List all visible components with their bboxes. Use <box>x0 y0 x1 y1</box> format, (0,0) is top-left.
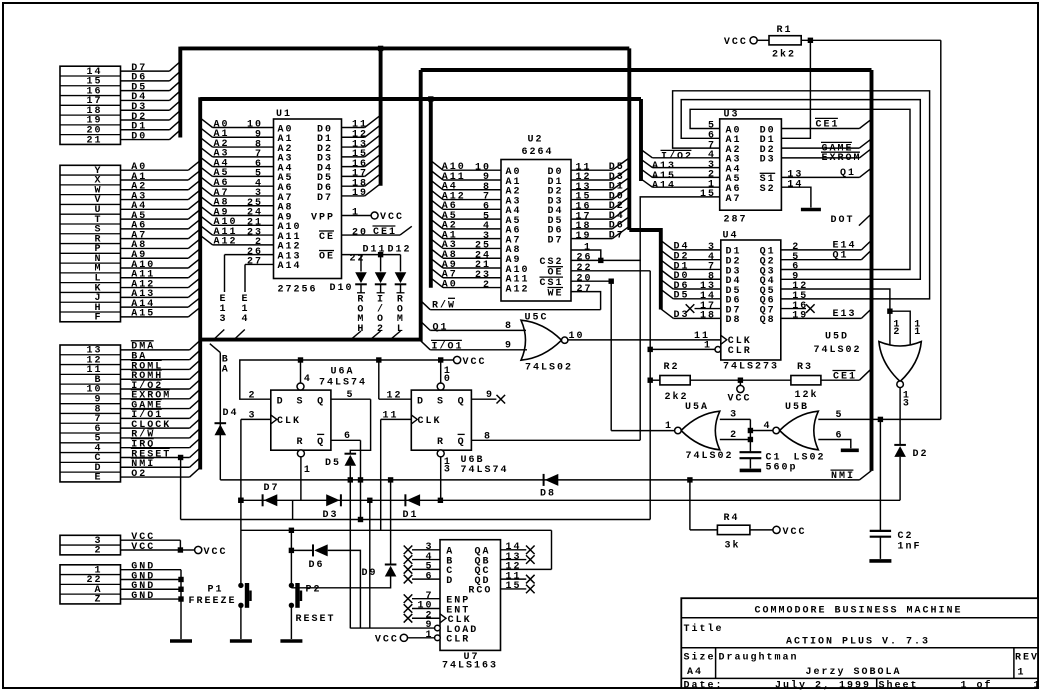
wire pin 2 VCC <box>121 549 181 551</box>
svg-text:U5A: U5A <box>685 402 709 413</box>
svg-text:A4: A4 <box>687 667 703 678</box>
svg-text:D3: D3 <box>760 155 776 166</box>
wire U2 pin 7 A12 <box>443 199 501 201</box>
svg-text:74LS163: 74LS163 <box>442 661 498 672</box>
svg-text:CE: CE <box>319 232 335 243</box>
bubble U5A output <box>675 427 682 434</box>
svg-text:D: D <box>277 396 285 407</box>
wire pin 21 D0 <box>121 139 170 141</box>
svg-text:D11: D11 <box>363 244 387 255</box>
node P2 top junction <box>289 528 294 533</box>
svg-text:19: 19 <box>352 188 368 199</box>
wire U1 pin 2 A12 <box>213 244 274 246</box>
wire U6B D to VCC <box>378 360 380 399</box>
no-connect X U6B pin 9 <box>497 395 506 404</box>
svg-text:12: 12 <box>386 390 402 401</box>
wire pin 17 D4 <box>121 99 170 101</box>
wire pin Z GND <box>121 598 182 600</box>
svg-text:F: F <box>94 313 102 324</box>
svg-text:4: 4 <box>763 421 771 432</box>
wire pin 22 GND <box>121 578 182 580</box>
svg-text:U2: U2 <box>528 135 544 146</box>
wire U1 pin 26 <box>225 254 274 256</box>
svg-text:July 2, 1999: July 2, 1999 <box>775 679 871 691</box>
node VCC junction R2R3 <box>738 378 743 383</box>
diode D7 <box>263 494 278 506</box>
wire U3 A15 <box>652 176 719 178</box>
wire U1 pin 3 A7 <box>213 195 274 197</box>
svg-text:74LS273: 74LS273 <box>723 362 779 373</box>
wire Q to D5 <box>350 399 370 453</box>
svg-text:D3: D3 <box>674 310 690 321</box>
svg-text:D: D <box>446 576 454 587</box>
svg-text:2: 2 <box>248 390 256 401</box>
svg-text:R3: R3 <box>797 362 813 373</box>
wire U1 pin 10 A0 <box>213 127 274 129</box>
wire CE1 net <box>342 234 401 236</box>
diode D8 <box>544 474 559 486</box>
wire R3 CE1 <box>821 379 860 381</box>
svg-text:D8: D8 <box>726 315 742 326</box>
svg-text:8: 8 <box>484 431 492 442</box>
wire U4 Q7 nc <box>781 308 806 310</box>
no-connect X U7 pin 3 <box>404 546 413 555</box>
svg-text:WE: WE <box>547 288 563 299</box>
svg-text:74LS02: 74LS02 <box>814 345 862 356</box>
wire pin Y A0 <box>121 169 189 171</box>
wire U1 pin 12 D1 <box>342 136 365 138</box>
wire BA bus entry <box>210 344 221 353</box>
wire U3 S2 to ground <box>781 187 811 207</box>
connector VCC pins box <box>60 535 121 555</box>
svg-text:3: 3 <box>903 398 911 409</box>
svg-text:A15: A15 <box>131 309 155 320</box>
ic U6A 74LS74 body <box>271 390 331 450</box>
wire U3 D0 CE1 <box>781 128 859 130</box>
wire pin 20 D1 <box>121 129 170 131</box>
no-connect X U7 pin 5 <box>404 565 413 574</box>
svg-text:CE1: CE1 <box>833 371 857 382</box>
wire pin C RESET <box>121 456 190 458</box>
wire E13 vertical <box>224 255 226 292</box>
wire diode D10 bottom <box>360 284 362 292</box>
wire pin D NMI <box>121 466 190 468</box>
bubble U6A R <box>297 450 304 457</box>
no-connect X U7 pin 6 <box>404 575 413 584</box>
connector GND pins box <box>60 565 121 604</box>
wire U1 pin 18 D6 <box>342 185 365 187</box>
resistor R1 <box>769 36 801 45</box>
svg-text:Q8: Q8 <box>760 315 776 326</box>
svg-text:NMI: NMI <box>831 471 855 482</box>
svg-text:D: D <box>417 396 425 407</box>
svg-text:18: 18 <box>700 311 716 322</box>
svg-text:1: 1 <box>304 465 312 476</box>
wire U2 pin 3 A1 <box>443 238 501 240</box>
wire VCC to R1 <box>757 39 769 41</box>
svg-text:ACTION PLUS V. 7.3: ACTION PLUS V. 7.3 <box>786 636 930 647</box>
ground U5B pin6 <box>841 448 859 452</box>
ic U4 74LS273 body <box>721 240 781 360</box>
wire address bus vertical left <box>198 97 202 469</box>
wire R2 to R3 <box>690 379 791 381</box>
node R1 junction <box>808 38 813 43</box>
title block size divider <box>715 648 717 679</box>
svg-text:S2: S2 <box>760 184 776 195</box>
wire U5C output pin 10 to U4 CLK <box>568 339 721 341</box>
wire D9 top <box>390 480 392 564</box>
wire NMI to R4 <box>689 480 691 530</box>
svg-text:A12: A12 <box>214 237 238 248</box>
wire U2 pin 16 D2 <box>571 208 612 210</box>
wire U2 pin 13 D1 <box>571 189 612 191</box>
svg-text:74LS02: 74LS02 <box>525 362 573 373</box>
wire pin 8 GAME <box>121 408 190 410</box>
ic U2 6264 body <box>501 160 571 302</box>
wire U7 QC out <box>501 568 552 570</box>
resistor R4 <box>717 525 750 534</box>
svg-text:2k2: 2k2 <box>772 48 796 60</box>
svg-text:3k: 3k <box>725 539 741 551</box>
svg-text:VCC: VCC <box>728 393 752 404</box>
svg-text:Q1: Q1 <box>433 322 449 333</box>
svg-text:Jerzy SOBOLA: Jerzy SOBOLA <box>806 667 902 678</box>
resistor R2 <box>660 376 690 385</box>
no-connect X U4 pin 17 <box>686 304 695 313</box>
svg-text:D2: D2 <box>913 449 929 460</box>
svg-text:R4: R4 <box>724 513 740 524</box>
no-connect X U7 <box>404 594 413 603</box>
ground U3 S2 <box>801 208 821 212</box>
svg-text:Z: Z <box>94 595 102 606</box>
node VCC rail junction <box>376 357 381 362</box>
wire U6A Q pin5 <box>331 398 371 400</box>
node NMI rail junction <box>687 477 692 482</box>
ic U6B 74LS74 body <box>411 390 471 450</box>
wire data bus branch to U4 <box>629 230 661 310</box>
wire U3 A13 <box>652 167 719 169</box>
wire U7 enable pin <box>412 617 440 619</box>
wire U3 pin 5 loop to U4 Q3 <box>690 109 910 269</box>
wire U1 pin 11 D0 <box>342 127 365 129</box>
wire pin6 down <box>360 440 362 519</box>
title block rev divider <box>1013 648 1015 679</box>
no-connect X U7 output <box>526 575 535 584</box>
svg-text:2: 2 <box>893 327 901 338</box>
svg-text:U3: U3 <box>724 110 740 121</box>
wire U5B output to U5A <box>750 430 773 432</box>
power VCC terminal R4 <box>773 526 780 533</box>
node rail3 junction <box>358 517 363 522</box>
wire U6A CLK <box>241 418 271 420</box>
ic U3 287 body <box>720 119 782 210</box>
op-amp U5C gate body <box>521 320 562 360</box>
wire D11 net bus entry <box>370 331 380 340</box>
wire D7 jog down <box>292 500 294 519</box>
wire U6B CLK down <box>380 419 382 530</box>
wire U2 pin 1 <box>571 250 601 260</box>
wire to C2 <box>879 419 881 530</box>
svg-text:6: 6 <box>425 571 433 582</box>
svg-text:S: S <box>437 396 445 407</box>
node U5A input junction <box>748 428 753 433</box>
wire to VCC symbol <box>180 549 194 551</box>
svg-text:P2: P2 <box>306 584 322 595</box>
wire U2 pin 25 A3 <box>443 247 501 249</box>
svg-text:A14: A14 <box>278 261 302 272</box>
wire diode D11 top <box>380 255 382 272</box>
node C1 junction <box>748 437 753 442</box>
svg-text:27: 27 <box>577 284 593 295</box>
wire R/W bus entry <box>421 301 431 310</box>
wire U2 pin 15 D0 <box>571 199 612 201</box>
wire U6A R pin1 down <box>300 456 302 500</box>
wire U6B Q pin9 nc <box>471 398 496 400</box>
wire R4 to VCC <box>750 529 773 531</box>
wire data bus top horizontal <box>180 46 629 50</box>
diode D4 <box>215 423 227 435</box>
wire BA down <box>219 353 221 480</box>
wire U3 D1 to R1 <box>781 40 810 138</box>
svg-text:D4: D4 <box>223 408 239 419</box>
diode D10 <box>355 272 367 284</box>
wire U1 pin 16 D4 <box>342 166 365 168</box>
svg-text:Draughtman: Draughtman <box>719 652 799 664</box>
svg-text:CLK: CLK <box>418 416 442 427</box>
wire data bus vertical right <box>627 48 631 230</box>
svg-text:A14: A14 <box>652 181 676 192</box>
wire pin 15 D6 <box>121 80 170 82</box>
node diode rail junction <box>367 498 372 503</box>
svg-text:A12: A12 <box>506 284 530 295</box>
svg-text:OE: OE <box>319 251 335 262</box>
svg-text:15: 15 <box>700 189 716 200</box>
svg-text:1: 1 <box>914 327 922 338</box>
wire pin A GND <box>121 588 182 590</box>
svg-text:6264: 6264 <box>522 147 554 158</box>
diode D12 <box>395 272 407 284</box>
svg-text:3: 3 <box>730 410 738 421</box>
wire down to QC <box>551 530 553 569</box>
svg-text:P1: P1 <box>208 584 224 595</box>
svg-text:Date:: Date: <box>684 680 724 691</box>
wire U5C pin 8 Q1 <box>430 329 526 331</box>
svg-text:D7: D7 <box>609 230 625 241</box>
svg-text:1nF: 1nF <box>898 541 922 552</box>
svg-text:REV: REV <box>1015 653 1039 664</box>
wire C2 to ground <box>879 537 881 559</box>
svg-text:D8: D8 <box>540 489 556 500</box>
wire U4 CLR <box>650 348 715 350</box>
svg-text:74LS74: 74LS74 <box>319 377 367 388</box>
power VCC at VPP <box>371 212 378 219</box>
wire D10 net bus entry <box>351 331 361 340</box>
wire VCC rail U6 <box>240 360 454 399</box>
wire U7 enable pin <box>412 598 440 600</box>
svg-text:6: 6 <box>344 431 352 442</box>
wire U7 output nc <box>501 559 527 561</box>
wire D6 down to LOAD <box>328 550 361 628</box>
power VCC terminal <box>195 546 202 553</box>
svg-text:3: 3 <box>248 411 256 422</box>
wire U2 pin 11 D5 <box>571 169 612 171</box>
wire U5A pin 2 <box>720 439 751 441</box>
svg-text:560p: 560p <box>766 462 798 473</box>
wire U6A CLK to P1 <box>240 419 242 585</box>
svg-text:CLK: CLK <box>277 416 301 427</box>
bubble U7 CLR <box>435 635 441 641</box>
op-amp U5B gate body <box>780 411 819 450</box>
bubble U6B R <box>437 450 444 457</box>
wire U4 Q5 to U5D input <box>781 289 890 347</box>
bubble U7 LOAD <box>435 625 441 631</box>
wire U1 pin 17 D5 <box>342 175 365 177</box>
wire U5D output to D2 <box>899 388 901 445</box>
wire U2 pin 8 A4 <box>443 189 501 191</box>
power VCC terminal R1 <box>750 37 757 44</box>
wire U5C pin 9 I/O1 <box>430 349 527 351</box>
wire U6B S to VCC <box>440 360 442 384</box>
no-connect X U7 <box>404 614 413 623</box>
no-connect X U7 pin 4 <box>404 555 413 564</box>
wire U4 pin 18 D3 <box>673 317 721 319</box>
wire U5B pin 6 to ground <box>818 440 851 449</box>
wire pin B ROMH <box>121 378 190 380</box>
wire U7 output nc <box>501 578 527 580</box>
svg-text:CLR: CLR <box>446 635 470 646</box>
wire NMI bus entry <box>859 471 871 480</box>
svg-text:VCC: VCC <box>380 212 404 223</box>
wire U2 pin 9 A11 <box>443 179 501 181</box>
wire U5B pin 5 to R1 net <box>818 418 941 420</box>
wire E14 vertical <box>244 264 246 292</box>
node junction address bus <box>428 96 433 101</box>
wire U4 pin 3 D4 <box>673 249 721 251</box>
wire U3 pin 4 I/O2 <box>652 157 719 159</box>
node GND junction <box>178 577 183 582</box>
wire pin 10 I/O2 <box>121 388 190 390</box>
svg-text:A0: A0 <box>442 279 458 290</box>
wire pin W A2 <box>121 189 189 191</box>
wire U5A inputs join C1 <box>749 419 751 451</box>
svg-text:2: 2 <box>730 430 738 441</box>
wire U4 pin 8 D0 <box>673 278 721 280</box>
svg-text:3: 3 <box>444 465 452 476</box>
wire U7 LOAD <box>350 627 434 629</box>
svg-text:D9: D9 <box>362 568 378 579</box>
wire CE1 stub <box>400 226 412 235</box>
wire pin E O2 <box>121 476 190 478</box>
svg-text:D7: D7 <box>264 483 280 494</box>
svg-text:CE1: CE1 <box>373 227 397 238</box>
wire U1 pin 23 A11 <box>213 234 274 236</box>
wire U6A Qbar pin6 <box>331 439 361 441</box>
svg-text:U5B: U5B <box>785 402 809 413</box>
wire diode D12 bottom <box>400 284 402 292</box>
wire diode D10 top <box>360 255 362 272</box>
op-amp U5D gate body <box>879 342 921 382</box>
svg-text:11: 11 <box>382 411 398 422</box>
bubble U5B output <box>773 427 780 434</box>
svg-text:D5: D5 <box>674 291 690 302</box>
wire pin 1 GND <box>121 569 182 571</box>
wire U1 pin 5 A5 <box>213 175 274 177</box>
wire CS1 <box>571 280 611 282</box>
node GND junction <box>178 596 183 601</box>
wire pin J A13 <box>121 296 189 298</box>
svg-text:EXROM: EXROM <box>822 153 862 164</box>
svg-text:VPP: VPP <box>311 212 335 223</box>
wire DOT bus entry <box>859 214 871 226</box>
title block sheet divider <box>876 678 878 688</box>
no-connect X U4 pin 16 <box>806 304 815 313</box>
wire U2 pin 10 A10 <box>443 169 501 171</box>
svg-text:U6A: U6A <box>331 367 355 378</box>
switch P1 FREEZE <box>238 583 252 608</box>
node VCC rail junction <box>298 357 303 362</box>
wire pin F A15 <box>121 316 189 318</box>
svg-text:LS02: LS02 <box>794 453 826 464</box>
svg-text:8: 8 <box>505 321 513 332</box>
diode D3 <box>326 494 341 506</box>
svg-text:2: 2 <box>483 280 491 291</box>
wire U1 pin 15 D3 <box>342 156 365 158</box>
wire U1 pin 13 D2 <box>342 146 365 148</box>
wire C1 to ground <box>749 458 751 468</box>
diode D9 <box>385 565 397 577</box>
capacitor C1 <box>740 452 762 458</box>
power VCC terminal U6 <box>454 356 461 363</box>
wire R/W horizontal <box>430 309 600 311</box>
svg-text:VCC: VCC <box>724 37 748 48</box>
svg-text:O2: O2 <box>131 469 147 480</box>
node RESET junction <box>178 455 183 460</box>
svg-text:5: 5 <box>836 410 844 421</box>
node freeze junction <box>238 498 243 503</box>
wire pin 19 D2 <box>121 119 170 121</box>
svg-text:1: 1 <box>1018 668 1026 679</box>
node VCC junction <box>178 547 183 552</box>
title block divider 1 <box>681 617 1038 619</box>
wire pin P A8 <box>121 247 189 249</box>
svg-text:Q: Q <box>458 437 466 448</box>
wire E14 bus entry <box>234 330 245 340</box>
wire U1 pin 19 D7 <box>342 195 365 197</box>
wire diode D12 top <box>400 255 402 272</box>
svg-text:6: 6 <box>836 430 844 441</box>
wire pin 13 DMA <box>121 349 190 351</box>
svg-text:D7: D7 <box>547 235 563 246</box>
wire U2 pin 4 A2 <box>443 228 501 230</box>
wire U4 Q8 E13 <box>781 317 862 319</box>
svg-text:VCC: VCC <box>375 635 399 646</box>
wire E13 bus entry <box>214 330 225 340</box>
connector control pins box <box>60 345 121 482</box>
diode D2 <box>894 445 906 457</box>
wire VPP to VCC <box>342 215 372 217</box>
bubble U5C output <box>562 337 568 343</box>
wire rail2 to LOAD <box>369 500 371 628</box>
svg-text:R2: R2 <box>664 362 680 373</box>
svg-text:VCC: VCC <box>131 542 155 553</box>
clk triangle U7 <box>440 614 446 623</box>
wire U6B CLK pin11 <box>381 418 412 420</box>
node R2 left junction <box>648 378 653 383</box>
svg-text:S: S <box>297 396 305 407</box>
title block frame <box>681 598 1038 688</box>
wire right edge vertical <box>940 40 942 419</box>
wire NMI rail <box>220 479 859 481</box>
